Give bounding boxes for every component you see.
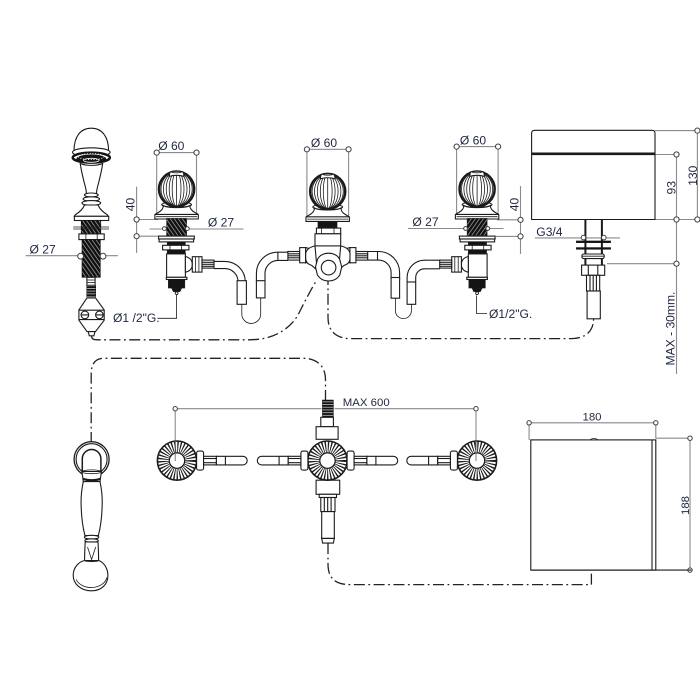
svg-text:Ø 60: Ø 60 <box>460 134 486 148</box>
svg-text:Ø 27: Ø 27 <box>30 243 56 257</box>
svg-text:Ø1 /2"G.: Ø1 /2"G. <box>113 311 160 325</box>
svg-text:40: 40 <box>508 197 522 211</box>
svg-text:G3/4: G3/4 <box>536 225 562 239</box>
svg-text:MAX - 30mm.: MAX - 30mm. <box>663 292 677 366</box>
svg-text:180: 180 <box>583 412 602 424</box>
svg-text:40: 40 <box>124 197 138 211</box>
svg-text:Ø 60: Ø 60 <box>311 136 337 150</box>
svg-text:Ø 60: Ø 60 <box>158 139 184 153</box>
svg-text:93: 93 <box>664 181 678 195</box>
svg-text:130: 130 <box>686 165 700 185</box>
svg-text:MAX 600: MAX 600 <box>343 397 390 409</box>
svg-text:188: 188 <box>680 496 692 515</box>
svg-text:Ø 27: Ø 27 <box>208 216 234 230</box>
svg-text:Ø 27: Ø 27 <box>412 215 438 229</box>
svg-text:Ø1/2"G.: Ø1/2"G. <box>489 307 532 321</box>
